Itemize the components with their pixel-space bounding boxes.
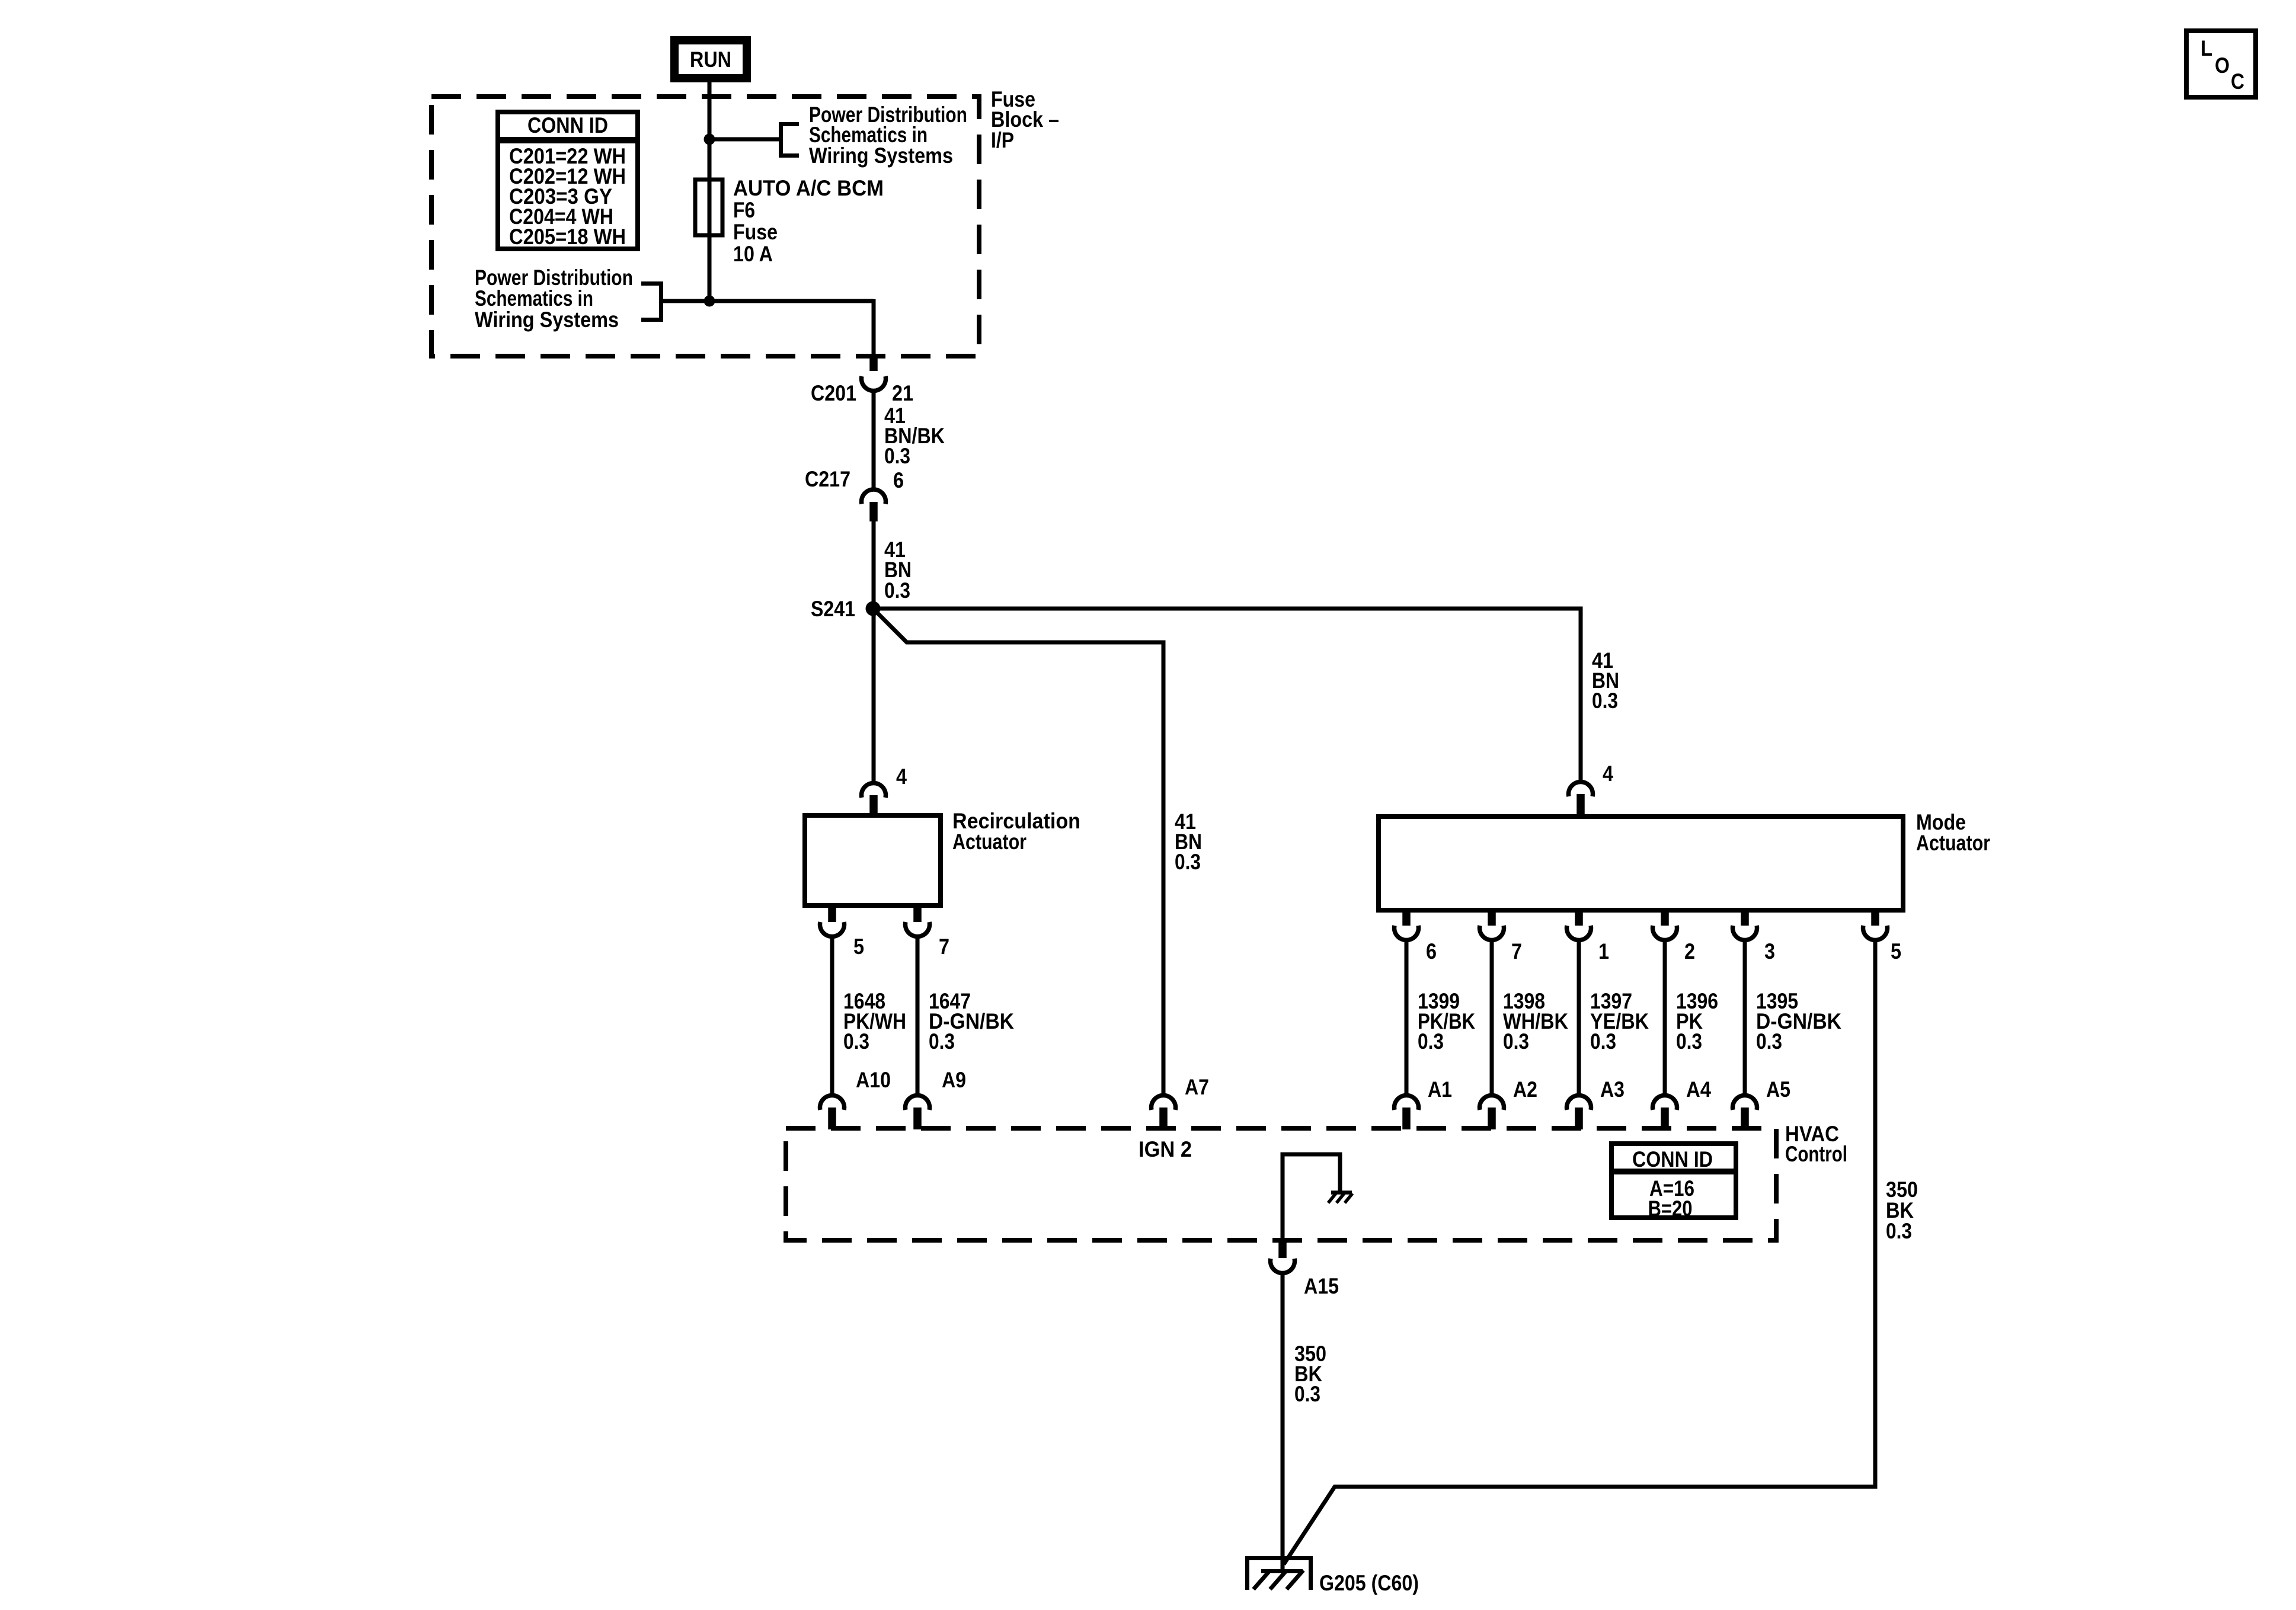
wire through fuse [708, 180, 712, 301]
connector mode actuator pin 2 [1653, 910, 1677, 940]
fuse F6 label [733, 176, 884, 266]
connector HVAC control pin A9 [905, 1095, 929, 1129]
wire RUN to fuse F6 [708, 82, 712, 180]
svg-text:0.3: 0.3 [1592, 689, 1618, 713]
connector HVAC control pin A10 [820, 1095, 845, 1129]
svg-text:Fuse: Fuse [733, 220, 778, 244]
svg-text:0.3: 0.3 [1418, 1029, 1444, 1054]
svg-text:A2: A2 [1513, 1077, 1537, 1102]
wire bracket to junction [661, 299, 874, 303]
svg-text:RUN: RUN [690, 47, 731, 72]
wire circuit 1395 D-GN/BK [1743, 939, 1747, 1093]
pin number 4 recirculation [896, 764, 907, 789]
label C217 [805, 467, 850, 491]
power distribution reference text lower [475, 265, 633, 332]
wire label 41 BN 0.3 right branch [1592, 648, 1619, 713]
power distribution reference text upper [809, 103, 967, 168]
pin label A9 [942, 1068, 966, 1092]
fuse block label [991, 87, 1059, 152]
svg-text:2: 2 [1684, 939, 1695, 964]
pin number 6 mode [1426, 939, 1437, 964]
wire label 1399 PK/BK 0.3 [1418, 989, 1475, 1054]
wire label 1397 YE/BK 0.3 [1590, 989, 1649, 1054]
svg-text:A15: A15 [1304, 1274, 1339, 1298]
svg-text:0.3: 0.3 [929, 1029, 955, 1054]
pin number 3 mode [1764, 939, 1775, 964]
wire junction to right bracket [709, 137, 781, 142]
wire S241 to mode actuator pin 4 [873, 609, 1581, 781]
svg-text:6: 6 [893, 468, 904, 492]
label S241 [811, 597, 855, 621]
connector HVAC control pin A15 [1270, 1243, 1294, 1273]
label C201 [811, 381, 856, 405]
node junction lower [704, 296, 715, 307]
svg-text:0.3: 0.3 [1756, 1029, 1782, 1054]
wire label 1398 WH/BK 0.3 [1503, 989, 1568, 1054]
mode actuator label [1916, 810, 1990, 855]
wire C201 to C217 circuit 41 BN/BK [872, 389, 876, 488]
connector mode actuator pin 4 [1568, 782, 1593, 814]
svg-text:1: 1 [1598, 939, 1609, 964]
svg-text:A5: A5 [1766, 1077, 1790, 1102]
pin name IGN 2 [1139, 1137, 1192, 1161]
ground G205 symbol [1248, 1558, 1311, 1590]
wire label 41 BN/BK 0.3 [884, 404, 945, 468]
wire circuit 350 BK right [1284, 939, 1875, 1564]
svg-text:Actuator: Actuator [1916, 831, 1990, 855]
wire label 41 BN 0.3 upper [884, 537, 912, 603]
pin label A2 [1513, 1077, 1537, 1102]
ignition switch RUN feed box [674, 40, 747, 78]
connector mode actuator pin 6 [1395, 910, 1419, 940]
svg-text:A3: A3 [1600, 1077, 1625, 1102]
svg-text:0.3: 0.3 [1590, 1029, 1616, 1054]
connector recirculation pin 7 [905, 907, 929, 937]
svg-text:C201: C201 [811, 381, 856, 405]
wire label 350 BK 0.3 right [1886, 1177, 1918, 1243]
svg-text:5: 5 [853, 934, 864, 959]
connector recirculation actuator pin 4 [861, 783, 885, 813]
pin label A15 [1304, 1274, 1339, 1298]
pin number 7 mode [1511, 939, 1522, 964]
connector recirculation pin 5 [820, 907, 845, 937]
svg-text:L: L [2201, 36, 2212, 60]
node junction to power distribution reference [704, 134, 715, 145]
wire circuit 1396 PK [1663, 939, 1667, 1093]
pin label A4 [1686, 1077, 1711, 1102]
svg-text:0.3: 0.3 [1503, 1029, 1529, 1054]
wire down to connector C201 [872, 299, 876, 356]
svg-text:IGN 2: IGN 2 [1139, 1137, 1192, 1161]
wire label 350 BK 0.3 [1294, 1342, 1326, 1406]
svg-text:C: C [2231, 69, 2244, 94]
svg-text:10 A: 10 A [733, 242, 773, 266]
HVAC control module dashed outline [786, 1128, 1776, 1240]
svg-text:7: 7 [939, 934, 949, 959]
wire circuit 1397 YE/BK [1577, 939, 1581, 1093]
connector C201 pin 21 [861, 356, 885, 391]
svg-text:0.3: 0.3 [1294, 1382, 1320, 1406]
svg-text:0.3: 0.3 [884, 578, 910, 603]
svg-text:Wiring Systems: Wiring Systems [475, 308, 619, 332]
svg-text:0.3: 0.3 [1676, 1029, 1702, 1054]
pin label A3 [1600, 1077, 1625, 1102]
svg-text:Control: Control [1785, 1142, 1847, 1166]
svg-text:A1: A1 [1428, 1077, 1452, 1102]
connector HVAC control pin A2 [1480, 1095, 1504, 1129]
svg-text:7: 7 [1511, 939, 1522, 964]
svg-text:5: 5 [1891, 939, 1901, 964]
svg-text:21: 21 [892, 381, 913, 405]
svg-text:0.3: 0.3 [843, 1029, 869, 1054]
svg-text:CONN ID: CONN ID [1632, 1147, 1713, 1172]
svg-text:6: 6 [1426, 939, 1437, 964]
svg-text:4: 4 [1603, 761, 1613, 786]
pin number 2 mode [1684, 939, 1695, 964]
svg-text:0.3: 0.3 [1175, 850, 1201, 874]
svg-text:B=20: B=20 [1648, 1196, 1693, 1221]
connector HVAC control pin A7 [1152, 1095, 1176, 1129]
CONN ID table (fuse block) [495, 112, 640, 249]
svg-text:A10: A10 [856, 1068, 891, 1092]
wire S241 to recirculation actuator pin 4 [872, 609, 876, 781]
svg-text:3: 3 [1764, 939, 1775, 964]
wire C217 to S241 circuit 41 BN [872, 521, 876, 609]
pin number 21 [892, 381, 913, 405]
wire label 1395 D-GN/BK 0.3 [1756, 989, 1841, 1054]
svg-text:G205 (C60): G205 (C60) [1319, 1571, 1419, 1595]
reference bracket right [781, 124, 800, 156]
wire circuit 1648 PK/WH [830, 936, 834, 1093]
ground label G205 (C60) [1319, 1571, 1419, 1595]
CONN ID table (HVAC control) [1609, 1144, 1736, 1221]
fuse F6 symbol [695, 180, 722, 235]
wire circuit 1399 PK/BK [1405, 939, 1409, 1093]
svg-text:Wiring Systems: Wiring Systems [809, 143, 953, 168]
connector HVAC control pin A1 [1395, 1095, 1419, 1129]
connector mode actuator pin 3 [1733, 910, 1757, 940]
connector HVAC control pin A5 [1733, 1095, 1757, 1129]
LOC reference box [2186, 31, 2256, 97]
pin number 5 mode [1891, 939, 1901, 964]
pin label A1 [1428, 1077, 1452, 1102]
svg-text:Actuator: Actuator [952, 830, 1027, 854]
wire circuit 1398 WH/BK [1490, 939, 1494, 1093]
pin number 6 [893, 468, 904, 492]
connector C217 pin 6 [861, 489, 885, 521]
pin number 5 [853, 934, 864, 959]
svg-text:0.3: 0.3 [1886, 1219, 1912, 1243]
HVAC control label [1785, 1122, 1847, 1166]
internal ground symbol [1328, 1193, 1352, 1204]
wire circuit 1647 D-GN/BK [916, 936, 920, 1093]
wire label 41 BN 0.3 center branch [1175, 809, 1202, 874]
svg-text:AUTO A/C BCM: AUTO A/C BCM [733, 176, 884, 200]
svg-text:O: O [2215, 53, 2230, 78]
svg-text:A4: A4 [1686, 1077, 1711, 1102]
pin number 7 [939, 934, 949, 959]
connector HVAC control pin A4 [1653, 1095, 1677, 1129]
pin number 4 mode [1603, 761, 1613, 786]
recirculation actuator label [952, 809, 1080, 854]
svg-text:Schematics in: Schematics in [475, 286, 593, 311]
wire S241 to HVAC control pin A7 [873, 609, 1163, 1093]
svg-text:0.3: 0.3 [884, 444, 910, 468]
svg-text:C217: C217 [805, 467, 850, 491]
wire circuit 350 BK to ground [1281, 1272, 1285, 1571]
pin label A5 [1766, 1077, 1790, 1102]
connector mode actuator pin 5 [1863, 910, 1888, 940]
wire label 1396 PK 0.3 [1676, 989, 1718, 1054]
fuse block I/P dashed outline [431, 97, 979, 356]
svg-text:F6: F6 [733, 198, 755, 222]
wire label 1648 PK/WH 0.3 [843, 989, 906, 1054]
wire label 1647 D-GN/BK 0.3 [929, 989, 1014, 1054]
recirculation actuator box [805, 815, 941, 905]
splice S241 [866, 601, 881, 616]
svg-text:4: 4 [896, 764, 907, 789]
wire internal ground HVAC [1283, 1154, 1340, 1240]
svg-text:A9: A9 [942, 1068, 966, 1092]
connector HVAC control pin A3 [1566, 1095, 1591, 1129]
pin label A10 [856, 1068, 891, 1092]
mode actuator box [1379, 817, 1903, 910]
svg-text:CONN ID: CONN ID [527, 113, 608, 137]
svg-text:A7: A7 [1185, 1075, 1209, 1099]
pin label A7 [1185, 1075, 1209, 1099]
svg-text:I/P: I/P [991, 128, 1014, 152]
pin number 1 mode [1598, 939, 1609, 964]
connector mode actuator pin 7 [1480, 910, 1504, 940]
svg-text:S241: S241 [811, 597, 855, 621]
reference bracket left [641, 284, 661, 320]
connector mode actuator pin 1 [1566, 910, 1591, 940]
svg-text:C205=18 WH: C205=18 WH [509, 225, 626, 249]
